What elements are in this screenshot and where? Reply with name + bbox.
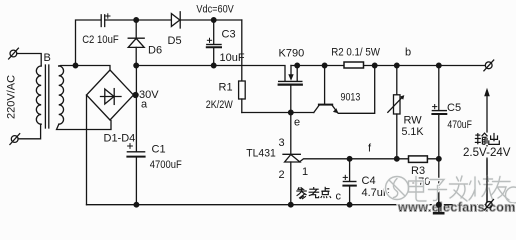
- diode inside bridge: [101, 89, 122, 105]
- node C5 f junction: [437, 157, 442, 162]
- svg-text:1: 1: [302, 166, 308, 178]
- MOSFET K790: [279, 66, 302, 113]
- svg-text:RW: RW: [404, 115, 423, 127]
- svg-text:2: 2: [279, 169, 285, 181]
- node RW bottom: [395, 157, 400, 162]
- transformer B secondary winding: [59, 66, 64, 124]
- diode D6: [128, 20, 144, 66]
- e rail (gate line): [242, 112, 314, 114]
- bridge rectifier D1-D4 diamond: [87, 70, 134, 120]
- wire riser to top rail: [76, 20, 102, 66]
- svg-text:b: b: [405, 47, 411, 59]
- svg-text:470uF: 470uF: [447, 119, 472, 131]
- ground rail right segment stubs: [445, 204, 453, 206]
- svg-text:K790: K790: [279, 48, 305, 60]
- node D6 top: [134, 18, 139, 23]
- terminal output plus: [484, 60, 494, 71]
- svg-text:D1-D4: D1-D4: [104, 133, 136, 145]
- wire C1 to ground rail: [135, 157, 137, 205]
- node K790 source: [295, 63, 300, 68]
- svg-text:B: B: [44, 52, 51, 64]
- svg-text:TL431: TL431: [246, 148, 275, 160]
- capacitor C3: [207, 20, 221, 66]
- label 2.5V-24V: [462, 147, 513, 160]
- node bridge + output: [133, 93, 138, 98]
- resistor R2: [344, 62, 364, 68]
- svg-text:c: c: [336, 191, 342, 203]
- node RW top: [395, 63, 400, 68]
- capacitor C5: [432, 66, 446, 159]
- svg-text:www.elecfans.com: www.elecfans.com: [397, 201, 516, 215]
- node C4 ground: [347, 202, 352, 207]
- svg-text:Vdc=60V: Vdc=60V: [196, 3, 234, 15]
- svg-text:C1: C1: [152, 144, 166, 156]
- svg-text:2K/2W: 2K/2W: [206, 99, 234, 111]
- wire: [17, 54, 41, 67]
- node C1 ground: [134, 202, 139, 207]
- ground rail (bottom): [87, 204, 486, 206]
- wire 9013 emitter to rail after R2: [338, 66, 374, 114]
- terminal output minus: [485, 200, 494, 210]
- potentiometer RW: [388, 66, 405, 159]
- node C4 top: [347, 157, 352, 162]
- node emitter rail: [372, 63, 377, 68]
- transformer B primary winding: [36, 66, 41, 124]
- node C3 bottom: [211, 63, 216, 68]
- ground bar terminator: [433, 212, 445, 215]
- svg-text:R1: R1: [219, 82, 233, 94]
- svg-text:10uF: 10uF: [220, 52, 245, 64]
- watermark 电子发烧友 logo band: [386, 176, 516, 203]
- label 参考点 (reference point): [296, 187, 331, 199]
- svg-text:R2 0.1/ 5W: R2 0.1/ 5W: [331, 47, 380, 59]
- svg-text:e: e: [294, 117, 300, 129]
- wire: [18, 125, 40, 139]
- capacitor C4: [343, 159, 356, 205]
- wire top rail to R1 riser: [241, 20, 243, 81]
- svg-text:220V/AC: 220V/AC: [6, 75, 18, 119]
- ground bar terminator redraw: [433, 212, 445, 215]
- output voltage arrow: [484, 88, 490, 202]
- node TL431 anode ground: [289, 202, 294, 207]
- transformer core: [45, 65, 48, 128]
- wire secondary top to node: [59, 66, 110, 71]
- terminal AC bottom-left: [10, 134, 20, 145]
- svg-text:D6: D6: [148, 45, 162, 57]
- resistor R1: [239, 81, 246, 99]
- wire node a riser (through D6 to top, down to C1): [135, 66, 137, 152]
- label 输出 (output): [474, 133, 501, 145]
- wire bridge minus riser to ground rail: [86, 95, 88, 205]
- terminal AC top-left: [9, 48, 19, 59]
- node gate e: [289, 110, 294, 115]
- node C5 ground redraw: [437, 202, 442, 207]
- capacitor C2: [101, 14, 110, 27]
- wire R1 bottom to e rail: [241, 99, 243, 113]
- output arrow shaft lower segment: [486, 160, 488, 202]
- wire C5 riser to ground: [438, 159, 440, 213]
- TL431 U1: [283, 113, 300, 205]
- svg-text:2.5V-24V: 2.5V-24V: [463, 147, 511, 159]
- node junction: [73, 63, 78, 68]
- svg-text:3: 3: [279, 137, 285, 149]
- svg-text:4700uF: 4700uF: [150, 159, 182, 171]
- transistor Q 9013: [314, 63, 339, 113]
- svg-text:C3: C3: [222, 29, 236, 41]
- node D6 bottom: [134, 63, 139, 68]
- watermark www.elecfans.com: [397, 201, 516, 215]
- capacitor C1: [127, 144, 144, 157]
- svg-text:C4: C4: [362, 175, 376, 187]
- svg-text:C2 10uF: C2 10uF: [82, 34, 119, 46]
- output rail from K790 source: [291, 65, 485, 67]
- f rail (ref line): [300, 159, 439, 162]
- svg-text:C5: C5: [447, 102, 461, 114]
- wire C5 riser lower segment over watermark: [433, 160, 494, 215]
- svg-text:D5: D5: [168, 35, 182, 47]
- wire top rail C2 to D6 node: [105, 19, 172, 21]
- svg-text:5.1K: 5.1K: [402, 126, 425, 138]
- svg-text:9013: 9013: [341, 91, 361, 103]
- terminal output minus redraw: [486, 202, 492, 208]
- node C5 top: [437, 63, 442, 68]
- main rail from bridge to K790 drain: [136, 66, 285, 82]
- svg-text:a: a: [141, 99, 148, 111]
- node C3 top: [211, 18, 216, 23]
- diode D5: [171, 12, 241, 28]
- node C5 ground: [437, 202, 442, 207]
- resistor R3: [409, 156, 428, 163]
- wire secondary bottom: [57, 121, 112, 130]
